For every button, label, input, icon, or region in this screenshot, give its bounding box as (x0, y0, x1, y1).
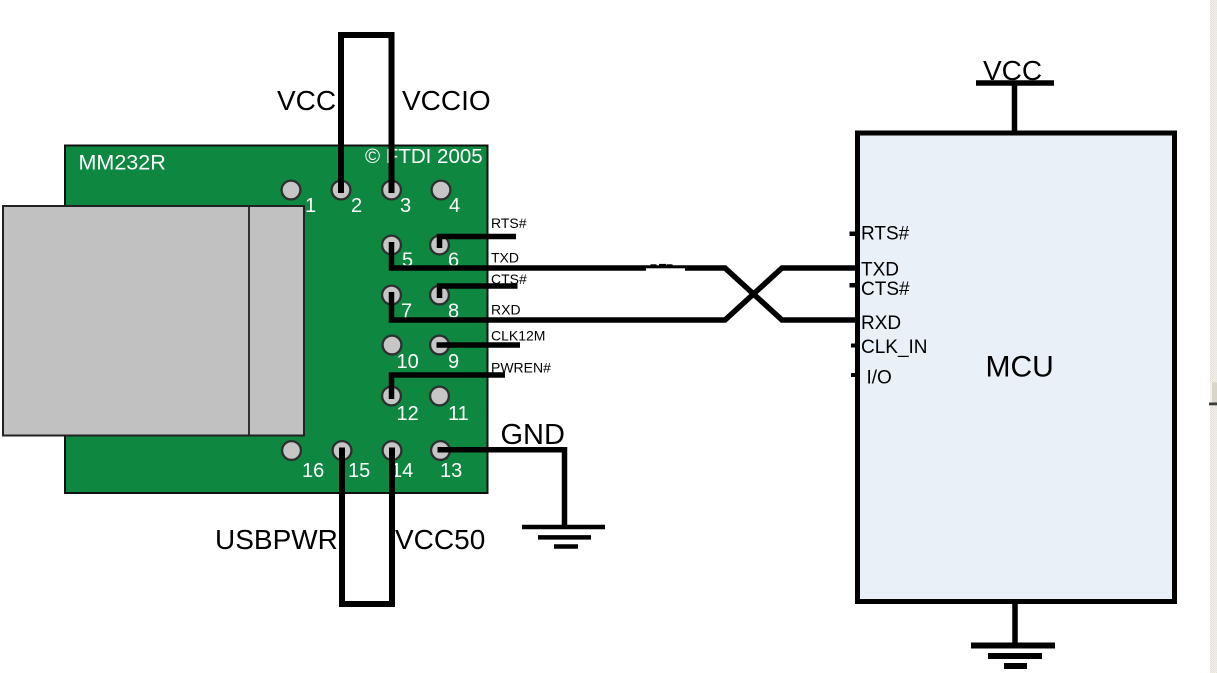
svg-text:TXD: TXD (861, 260, 899, 281)
stub CLK_IN (MCU) (851, 344, 857, 348)
pad pin 13 (431, 441, 450, 460)
svg-text:PWREN#: PWREN# (491, 359, 551, 375)
scrollbar track (1210, 0, 1217, 673)
ground symbol (MCU) (1012, 599, 1018, 645)
svg-text:VCCIO: VCCIO (402, 85, 491, 116)
svg-text:2: 2 (351, 195, 362, 217)
pad pin 14 (383, 441, 402, 460)
svg-text:15: 15 (348, 460, 370, 482)
pad pin 1 (282, 181, 301, 200)
svg-text:VCC50: VCC50 (395, 524, 485, 555)
svg-text:4: 4 (449, 195, 460, 217)
wire CLK12M stub from pin 9 (437, 342, 521, 348)
ground symbol near pin 13 (522, 527, 605, 547)
pad pin 16 (282, 441, 301, 460)
wire VCC-VCCIO jumper (pin2 to pin3) (341, 35, 392, 193)
svg-text:RTS#: RTS# (861, 224, 910, 245)
pad pin 5 (382, 236, 401, 255)
svg-text:TXD: TXD (491, 250, 519, 266)
svg-text:10: 10 (397, 351, 419, 373)
svg-text:CLK12M: CLK12M (491, 327, 545, 343)
svg-text:1: 1 (305, 195, 316, 217)
USB connector body (3, 206, 304, 436)
stub CTS# (MCU) (850, 283, 857, 288)
svg-text:RXD: RXD (861, 313, 901, 334)
wire RXD from pin 7 to MCU (crossover) (392, 268, 856, 320)
pad pin 15 (333, 441, 352, 460)
svg-text:MM232R: MM232R (79, 151, 166, 175)
pad pin 2 (332, 181, 351, 200)
svg-text:CTS#: CTS# (861, 279, 910, 300)
svg-text:11: 11 (448, 403, 469, 425)
MCU box U1 (858, 133, 1175, 602)
pad pin 8 (430, 286, 449, 305)
pad pin 9 (430, 336, 449, 355)
pad pin 11 (430, 387, 449, 406)
pad pin 3 (382, 181, 401, 200)
pad pin 7 (382, 286, 401, 305)
wire PWREN# stub from pin 12 (392, 375, 506, 399)
pad pin 6 (430, 236, 449, 255)
stub RTS# (MCU) (850, 232, 857, 237)
svg-text:RXD: RXD (491, 302, 521, 318)
svg-text:I/O: I/O (867, 367, 892, 388)
scrollbar thumb (1211, 383, 1217, 403)
svg-text:GND: GND (501, 419, 565, 451)
wire GND from pin 13 (438, 450, 565, 525)
VCC rail symbol (MCU) (976, 80, 1054, 86)
pad pin 10 (383, 336, 402, 355)
svg-text:RTS#: RTS# (491, 215, 527, 231)
svg-text:© FTDI 2005: © FTDI 2005 (365, 145, 483, 168)
svg-text:CLK_IN: CLK_IN (861, 337, 928, 358)
stub I/O (MCU) (851, 373, 857, 377)
svg-text:3: 3 (400, 195, 411, 217)
wire TXD from pin 5 to MCU (crossover) (392, 242, 856, 320)
svg-text:VCC: VCC (277, 85, 336, 116)
svg-text:12: 12 (397, 403, 419, 425)
wire CTS# stub from pin 8 (440, 286, 518, 298)
svg-text:9: 9 (448, 351, 459, 373)
wire USBPWR-VCC50 jumper (pin15 to pin14) (342, 448, 392, 605)
svg-text:16: 16 (302, 460, 324, 482)
svg-text:CTS#: CTS# (491, 271, 527, 287)
svg-text:MCU: MCU (986, 351, 1054, 384)
MM232R module board (65, 146, 488, 494)
pad pin 4 (432, 181, 451, 200)
svg-text:13: 13 (440, 460, 462, 482)
svg-text:VCC: VCC (983, 55, 1042, 86)
wire RTS# stub from pin 6 (440, 237, 517, 249)
pad pin 12 (382, 387, 401, 406)
USB connector divider line (248, 206, 250, 436)
svg-text:USBPWR: USBPWR (215, 524, 338, 555)
